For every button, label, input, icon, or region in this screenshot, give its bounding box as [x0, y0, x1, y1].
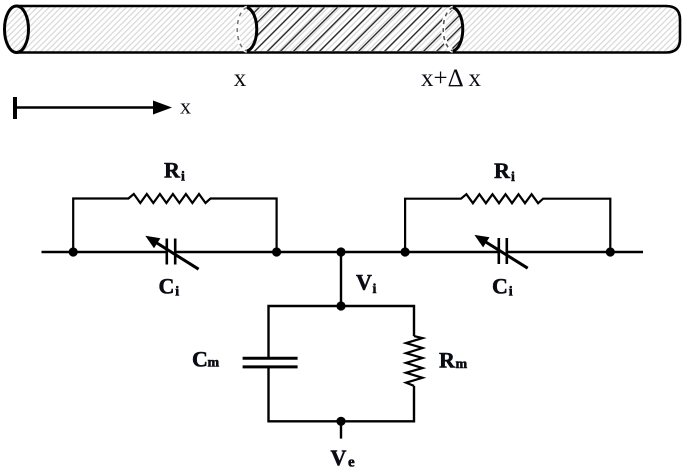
x axis arrow — [15, 97, 172, 119]
variable capacitor Ci (left) — [145, 236, 198, 269]
svg-text:i: i — [175, 285, 179, 300]
resistor Ri (right) with bypass loop — [405, 194, 610, 252]
svg-text:e: e — [348, 455, 355, 471]
axon cylinder body — [5, 6, 681, 53]
label Ri (right) — [494, 158, 515, 185]
axon left end cross-section ellipse — [5, 6, 29, 53]
variable capacitor Ci (right) — [474, 235, 527, 268]
svg-text:x+Δ x: x+Δ x — [421, 65, 482, 92]
svg-text:R: R — [494, 158, 511, 183]
node right-2 — [606, 247, 615, 256]
label Ve — [331, 445, 356, 471]
main horizontal wire right part — [508, 251, 644, 253]
label Cm — [192, 347, 220, 372]
cross-section boundary at x+dx (front solid arc) — [453, 8, 463, 52]
svg-text:x: x — [234, 65, 247, 92]
capacitor Cm plates — [243, 358, 298, 367]
svg-text:i: i — [373, 282, 377, 297]
label Vi — [356, 270, 377, 298]
svg-text:R: R — [439, 348, 456, 373]
node left-2 — [272, 247, 281, 256]
label Ci (left) — [159, 274, 180, 300]
stub wire to Ve — [340, 421, 342, 438]
cross-section boundary at x+dx (dashed rear arc) — [443, 8, 453, 52]
node left-1 — [69, 247, 78, 256]
node membrane bottom — [336, 417, 345, 426]
svg-text:R: R — [164, 158, 181, 183]
node center Vi on main wire — [336, 247, 345, 256]
svg-text:V: V — [331, 445, 347, 470]
svg-text:m: m — [456, 357, 468, 372]
svg-text:V: V — [356, 270, 372, 295]
main horizontal wire between capacitors — [176, 251, 498, 253]
label Ci (right) — [492, 274, 513, 300]
resistor Ri (left) with bypass loop — [73, 194, 276, 252]
svg-text:C: C — [192, 347, 208, 372]
node membrane top — [336, 301, 345, 310]
cross-section boundary at x (front solid arc) — [247, 8, 257, 52]
svg-text:x: x — [180, 94, 191, 119]
svg-text:i: i — [511, 170, 515, 185]
wire from center node down to membrane loop — [340, 252, 342, 306]
node right-1 — [401, 247, 410, 256]
main horizontal wire (intracellular), left part up to left capacitor — [42, 251, 167, 253]
svg-text:i: i — [509, 285, 513, 300]
svg-text:i: i — [181, 170, 185, 185]
membrane loop wires — [269, 306, 415, 421]
cross-section boundary at x (dashed rear arc) — [237, 8, 247, 52]
label Rm — [439, 348, 468, 373]
svg-text:C: C — [159, 274, 175, 299]
label Ri (left) — [164, 158, 185, 185]
membrane segment dense hatch between x and x+dx — [247, 8, 463, 52]
svg-text:m: m — [208, 356, 220, 371]
svg-text:C: C — [492, 274, 508, 299]
resistor Rm (vertical zigzag) — [406, 336, 423, 386]
